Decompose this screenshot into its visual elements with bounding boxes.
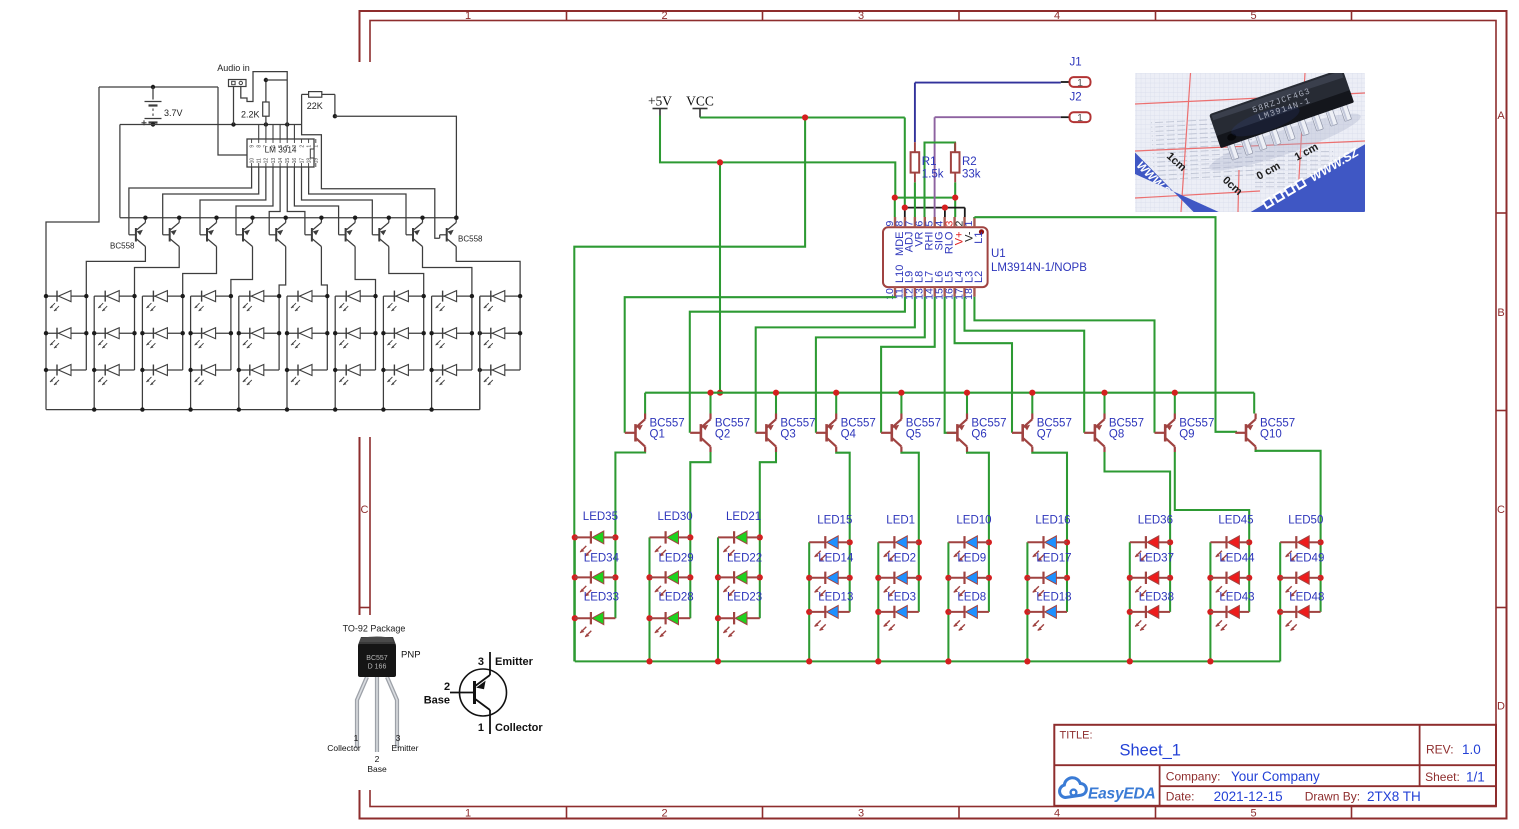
svg-text:12: 12: [264, 158, 270, 164]
LED LED48: [1280, 606, 1320, 631]
LED LED35: [575, 531, 616, 556]
wire Q4 collector to LED column: [836, 452, 850, 542]
wire collector to LED rail (bitmap): [231, 247, 253, 297]
svg-text:LED17: LED17: [1036, 553, 1071, 565]
svg-text:R1: R1: [922, 156, 937, 168]
svg-text:LED2: LED2: [887, 553, 916, 565]
svg-text:17: 17: [299, 158, 305, 164]
svg-text:L1: L1: [973, 232, 985, 244]
svg-text:3: 3: [396, 733, 401, 743]
svg-text:3: 3: [858, 807, 864, 819]
wire collector to LED rail (bitmap): [86, 247, 145, 297]
svg-text:LED38: LED38: [1139, 592, 1174, 604]
svg-text:Company:: Company:: [1166, 770, 1221, 784]
LED LED28: [650, 612, 691, 637]
svg-text:LED36: LED36: [1138, 515, 1173, 527]
svg-text:1.5k: 1.5k: [922, 169, 944, 181]
LED LED23: [718, 612, 760, 637]
transistor BC558 #10 (bitmap): [446, 228, 448, 242]
wires IC outputs to transistor bases (bitmap): [129, 167, 252, 235]
svg-text:2: 2: [661, 10, 667, 22]
LED LED34: [575, 571, 616, 596]
LED column 2 wires: [646, 534, 693, 661]
svg-text:LED18: LED18: [1036, 592, 1071, 604]
LED LED1: [878, 536, 919, 561]
wire Q6 collector to LED column: [967, 452, 989, 542]
svg-text:LED1: LED1: [886, 515, 915, 527]
EasyEDA logo: [1060, 778, 1156, 803]
svg-text:LED16: LED16: [1035, 515, 1070, 527]
svg-text:J1: J1: [1070, 57, 1082, 69]
svg-text:8: 8: [257, 145, 263, 148]
svg-text:LED8: LED8: [957, 592, 986, 604]
svg-text:5: 5: [1250, 807, 1256, 819]
LED LED8: [948, 606, 989, 631]
svg-text:LED15: LED15: [817, 515, 852, 527]
wire battery top rail: [99, 86, 218, 88]
svg-text:5: 5: [278, 145, 284, 148]
wire L5 output to Q6 base: [945, 297, 956, 433]
svg-text:22K: 22K: [307, 101, 323, 111]
LED column 1 wires: [572, 534, 619, 661]
svg-text:2021-12-15: 2021-12-15: [1214, 789, 1283, 804]
LED column 8 (bitmap): [381, 291, 426, 410]
resistor R2 33k: [951, 143, 981, 183]
LED column 8 wires: [1127, 539, 1173, 661]
transistor Q4 BC557: [816, 414, 876, 453]
wire J2 to SIG (purple): [935, 116, 1061, 118]
svg-text:Sheet:: Sheet:: [1425, 770, 1460, 784]
wire V- net (black): [902, 205, 965, 218]
svg-text:1: 1: [314, 145, 320, 148]
svg-text:Date:: Date:: [1166, 790, 1195, 804]
svg-text:4: 4: [1054, 807, 1060, 819]
svg-text:Audio in: Audio in: [217, 63, 250, 73]
LED LED30: [650, 531, 691, 556]
svg-text:L2: L2: [973, 271, 985, 283]
wire Q7 collector to LED column: [1032, 452, 1067, 542]
svg-text:1: 1: [306, 145, 312, 148]
svg-text:LED33: LED33: [584, 592, 619, 604]
wire collector to LED rail (bitmap): [183, 247, 217, 297]
svg-text:Q8: Q8: [1109, 429, 1124, 441]
transistor Q8 BC557: [1084, 414, 1144, 453]
transistor BC558 #8 (bitmap): [378, 228, 380, 242]
LED column 7 wires: [1024, 539, 1070, 661]
transistor symbol PNP (bitmap): [424, 652, 544, 734]
svg-text:REV:: REV:: [1426, 743, 1454, 757]
svg-text:6: 6: [271, 145, 277, 148]
svg-text:18: 18: [306, 158, 312, 164]
svg-text:LED35: LED35: [583, 511, 618, 523]
svg-text:U1: U1: [991, 248, 1006, 260]
svg-text:TITLE:: TITLE:: [1060, 730, 1093, 742]
svg-text:3: 3: [858, 10, 864, 22]
title block: [1054, 725, 1496, 806]
svg-text:LED14: LED14: [818, 553, 854, 565]
wire collector to LED rail (bitmap): [355, 247, 375, 297]
LED LED16: [1027, 536, 1067, 561]
wire audio left pin: [233, 87, 235, 125]
svg-text:D: D: [1497, 701, 1505, 713]
svg-text:LED34: LED34: [584, 553, 620, 565]
wire battery top to IC: [218, 87, 252, 155]
LED column 7 (bitmap): [333, 291, 378, 410]
LED LED45: [1210, 536, 1249, 561]
svg-text:TO-92 Package: TO-92 Package: [343, 624, 406, 634]
resistor 22K: [302, 93, 309, 95]
svg-text:4: 4: [285, 145, 291, 148]
wire 22K right feed: [334, 94, 336, 116]
wire Q5 collector to LED column: [901, 452, 918, 542]
wire collector to LED rail (bitmap): [423, 247, 472, 297]
svg-text:BC558: BC558: [110, 242, 135, 251]
transistor Q9 BC557: [1155, 414, 1215, 453]
LED LED14: [809, 571, 850, 596]
LED LED15: [809, 536, 850, 561]
svg-text:33k: 33k: [962, 169, 981, 181]
LED LED50: [1280, 536, 1320, 561]
svg-text:R2: R2: [962, 156, 977, 168]
LED LED38: [1130, 606, 1170, 631]
svg-text:Q3: Q3: [780, 429, 795, 441]
svg-text:Sheet_1: Sheet_1: [1120, 742, 1181, 760]
power +5V: [648, 94, 672, 116]
svg-text:7: 7: [264, 145, 270, 148]
transistor BC558 #4 (bitmap): [242, 228, 244, 242]
svg-text:1: 1: [465, 10, 471, 22]
svg-text:EasyEDA: EasyEDA: [1088, 786, 1156, 803]
svg-text:16: 16: [292, 158, 298, 164]
svg-text:LED49: LED49: [1289, 553, 1324, 565]
svg-text:Collector: Collector: [327, 743, 361, 753]
svg-text:LED48: LED48: [1289, 592, 1324, 604]
svg-text:14: 14: [278, 158, 284, 164]
svg-text:1: 1: [963, 221, 975, 227]
transistor Q7 BC557: [1012, 414, 1072, 453]
LED column 1 (bitmap): [44, 291, 89, 410]
wire collector to LED rail (bitmap): [389, 247, 424, 297]
IC LM 3914 (bitmap): [247, 139, 314, 167]
svg-text:BC557: BC557: [366, 655, 388, 662]
LED LED22: [718, 571, 760, 596]
reference image: BC557 TO-92 package: [325, 615, 545, 790]
wire VCC net: [574, 114, 905, 661]
svg-text:2: 2: [661, 807, 667, 819]
LED column 4 wires: [806, 539, 853, 661]
svg-text:LED43: LED43: [1219, 592, 1254, 604]
svg-text:C: C: [1497, 504, 1505, 516]
svg-text:+5V: +5V: [648, 94, 672, 109]
svg-text:LED28: LED28: [659, 592, 694, 604]
svg-text:13: 13: [271, 158, 277, 164]
IC U1 LM3914N-1/NOPB: [883, 217, 1087, 300]
svg-text:2: 2: [444, 681, 450, 693]
svg-text:LED10: LED10: [956, 515, 991, 527]
LED LED9: [948, 571, 989, 596]
LED LED10: [948, 536, 989, 561]
LED column 10 (bitmap): [478, 291, 523, 410]
svg-text:LED23: LED23: [727, 592, 762, 604]
wire Q2 collector to LED column: [690, 452, 710, 537]
svg-text:BC558: BC558: [458, 235, 483, 244]
wire L1 output to Q10 base: [974, 217, 1237, 432]
svg-text:3: 3: [478, 656, 484, 668]
svg-text:LM3914N-1/NOPB: LM3914N-1/NOPB: [991, 262, 1087, 274]
wire +5V net: [660, 116, 958, 396]
battery BT 3.7V: [152, 87, 154, 100]
LED column 2 (bitmap): [92, 291, 137, 410]
transistor Q5 BC557: [881, 414, 941, 453]
LED column 5 (bitmap): [237, 291, 282, 410]
transistor BC558 #3 (bitmap): [206, 228, 208, 242]
wire Q10 collector to LED column: [1256, 451, 1321, 543]
svg-text:15: 15: [285, 158, 291, 164]
svg-text:Collector: Collector: [495, 722, 543, 734]
svg-text:4: 4: [1054, 10, 1060, 22]
svg-text:10: 10: [249, 158, 255, 164]
svg-text:2TX8 TH: 2TX8 TH: [1367, 789, 1421, 804]
svg-text:Your Company: Your Company: [1231, 769, 1320, 784]
wire 22K left to T10 base: [302, 94, 440, 238]
svg-text:Q10: Q10: [1260, 429, 1282, 441]
wire J1 to R1 (navy): [915, 82, 1061, 84]
wire Q9 collector to LED column: [1175, 452, 1249, 542]
LED LED33: [575, 612, 616, 637]
LED LED3: [878, 606, 919, 631]
svg-text:VCC: VCC: [686, 94, 714, 109]
transistor Q3 BC557: [756, 414, 816, 453]
LED LED21: [718, 531, 760, 556]
transistor Q2 BC557: [690, 414, 750, 453]
svg-text:LED37: LED37: [1139, 553, 1174, 565]
LED LED18: [1027, 606, 1067, 631]
wire VR to R1 bottom: [914, 182, 916, 217]
svg-text:LED9: LED9: [957, 553, 986, 565]
svg-text:1: 1: [1077, 77, 1083, 89]
svg-text:1: 1: [1077, 112, 1083, 124]
svg-text:19: 19: [314, 158, 320, 164]
wire Q8 collector to LED column: [1105, 452, 1171, 542]
wire emitter bus (+5V rail to Q emitters): [645, 390, 1254, 414]
svg-text:Base: Base: [367, 764, 387, 774]
svg-text:Emitter: Emitter: [495, 656, 534, 668]
wire collector to LED rail (bitmap): [279, 247, 286, 297]
wire LED bottom bus: [575, 658, 1280, 664]
svg-text:PNP: PNP: [401, 650, 421, 661]
svg-text:2.2K: 2.2K: [241, 110, 260, 120]
wire L4..L2 outputs to Q7..Q9 bases: [955, 297, 1155, 433]
LED LED36: [1130, 536, 1170, 561]
LED column 9 (bitmap): [429, 291, 474, 410]
svg-text:LED45: LED45: [1218, 515, 1253, 527]
svg-text:Q7: Q7: [1037, 429, 1052, 441]
svg-text:J2: J2: [1070, 92, 1082, 104]
wire RHI to R2 top: [925, 143, 956, 218]
svg-text:11: 11: [257, 158, 263, 163]
svg-text:5: 5: [1250, 10, 1256, 22]
resistor R1 1.5k: [911, 142, 944, 182]
svg-text:LED50: LED50: [1288, 515, 1323, 527]
wire emitter bus (bitmap): [120, 217, 457, 219]
svg-text:1: 1: [478, 722, 484, 734]
wires into IC top pins: [258, 125, 260, 140]
LED LED49: [1280, 571, 1320, 596]
transistor BC558 #7 (bitmap): [345, 228, 347, 242]
wire left drop to LED rail: [46, 87, 99, 297]
svg-text:LED29: LED29: [659, 553, 694, 565]
LED LED2: [878, 571, 919, 596]
svg-text:Base: Base: [424, 695, 450, 707]
svg-text:3.7V: 3.7V: [164, 108, 183, 118]
wire bottom bus (bitmap): [46, 409, 480, 411]
svg-text:LED13: LED13: [818, 592, 853, 604]
svg-text:B: B: [1497, 307, 1504, 319]
svg-text:C: C: [361, 504, 369, 516]
LED LED43: [1210, 606, 1249, 631]
LED LED17: [1027, 571, 1067, 596]
svg-text:2: 2: [375, 754, 380, 764]
svg-text:Q5: Q5: [906, 429, 921, 441]
resistor 2.2K: [265, 80, 267, 102]
svg-text:3: 3: [292, 145, 298, 148]
wire L10..L6 outputs to Q1..Q5 bases: [625, 297, 935, 433]
svg-text:LED30: LED30: [658, 511, 693, 523]
transistor BC558 #2 (bitmap): [169, 228, 171, 242]
svg-text:D 166: D 166: [368, 664, 387, 671]
svg-text:Q6: Q6: [971, 429, 986, 441]
LED column 3 (bitmap): [140, 291, 185, 410]
wire Q1 collector to LED column: [615, 452, 645, 537]
svg-text:Emitter: Emitter: [392, 743, 419, 753]
svg-text:A: A: [1497, 110, 1505, 122]
wire collector to LED rail (bitmap): [321, 247, 327, 297]
LED LED29: [650, 571, 691, 596]
wire Q3 collector to LED column: [760, 452, 776, 537]
svg-text:LED44: LED44: [1219, 553, 1255, 565]
svg-text:1.0: 1.0: [1462, 742, 1481, 757]
svg-text:Q1: Q1: [650, 429, 665, 441]
svg-text:LED3: LED3: [887, 592, 916, 604]
svg-text:Drawn By:: Drawn By:: [1305, 790, 1360, 804]
transistor BC558 #5 (bitmap): [275, 228, 277, 242]
transistor BC558 #6 (bitmap): [311, 228, 313, 242]
svg-text:9: 9: [249, 145, 255, 148]
svg-text:1: 1: [465, 807, 471, 819]
wire collector to LED rail (bitmap): [456, 247, 520, 297]
LED column 5 wires: [875, 539, 922, 661]
LED column 9 wires: [1207, 539, 1252, 661]
connector J2: [1061, 92, 1091, 125]
transistor Q6 BC557: [947, 414, 1007, 453]
svg-text:LED22: LED22: [727, 553, 762, 565]
svg-text:Q2: Q2: [715, 429, 730, 441]
svg-text:Q4: Q4: [841, 429, 857, 441]
LED column 3 wires: [715, 534, 763, 661]
LED column 6 wires: [945, 539, 992, 661]
LED LED44: [1210, 571, 1249, 596]
reference image: LM3914 IC photo: [1134, 68, 1365, 247]
connector J1: [1061, 57, 1091, 89]
transistor BC558 #1 (bitmap): [135, 228, 137, 242]
LED column 10 wires: [1277, 539, 1324, 661]
power VCC: [686, 94, 714, 118]
wire audio right pin loop: [241, 72, 287, 139]
wire collector to LED rail (bitmap): [135, 247, 180, 297]
LED LED13: [809, 606, 850, 631]
reference image: LM3914 VU-meter schematic bitmap: [40, 62, 540, 437]
transistor BC558 #9 (bitmap): [412, 228, 414, 242]
LED LED37: [1130, 571, 1170, 596]
transistor Q1 BC557: [625, 414, 685, 453]
svg-text:1: 1: [354, 733, 359, 743]
svg-text:2: 2: [299, 145, 305, 148]
wire battery bottom rail: [153, 124, 302, 126]
svg-text:Q9: Q9: [1179, 429, 1194, 441]
transistor Q10 BC557: [1235, 414, 1295, 453]
svg-text:LED21: LED21: [726, 511, 761, 523]
LED column 4 (bitmap): [188, 291, 233, 410]
LED column 6 (bitmap): [285, 291, 330, 410]
svg-text:1/1: 1/1: [1466, 770, 1485, 785]
